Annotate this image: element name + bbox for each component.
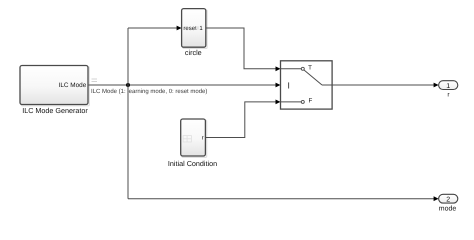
svg-text:r: r [202,136,204,142]
icon tiny table [183,136,191,142]
svg-text:1: 1 [446,83,450,90]
arrowhead into circle reset port [177,26,182,31]
outport 2 mode [439,194,458,212]
wire to circle reset input [128,27,178,29]
svg-text:ILC Mode Generator: ILC Mode Generator [22,106,88,115]
block circle (subsystem) [182,9,207,58]
block Initial Condition [168,119,217,168]
svg-text:mode: mode [439,204,457,212]
arrowhead into outport 1 [434,83,439,88]
T input internal line and contact [281,68,302,70]
svg-text:2: 2 [446,196,450,203]
arrowhead into switch control port [276,83,281,88]
wire switch output to outport r [332,84,435,86]
wire Initial Condition output to switch F input [205,102,277,138]
svg-text:Initial Condition: Initial Condition [168,159,217,168]
svg-text:T: T [308,65,312,72]
junction node on ILC Mode wire [126,83,130,87]
svg-text:circle: circle [185,48,202,57]
F input internal line and contact [281,101,302,103]
outport 1 r [439,81,458,99]
svg-text:ILC Mode: ILC Mode [59,82,87,89]
svg-text:reset: reset [183,26,197,32]
block Switch [281,61,333,109]
svg-text:F: F [309,98,313,105]
wire ILC Mode: generator output to switch control input [89,84,278,86]
block ILC Mode Generator [20,66,89,115]
arrowhead into outport 2 [434,196,439,201]
wire branch vertical x=128 (up to circle reset, down to mode outport) [127,28,129,199]
arrowhead into switch F port [276,100,281,105]
threshold tick [288,82,290,88]
switch lever diagonal [304,70,322,85]
arrowhead into switch T port [276,66,281,71]
wire circle output to switch T input [206,28,277,69]
svg-text:ILC Mode (1: learning mode, 0:: ILC Mode (1: learning mode, 0: reset mod… [91,88,207,95]
signal label anchor marks [92,79,98,82]
wire branch to outport mode [128,198,435,200]
